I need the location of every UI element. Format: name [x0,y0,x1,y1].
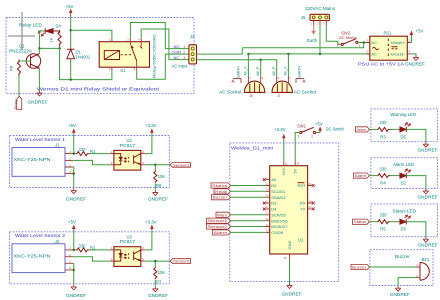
svg-text:PC817: PC817 [120,143,136,148]
svg-text:SW1: SW1 [297,124,307,129]
svg-text:GNDREF: GNDREF [66,197,86,202]
svg-text:+5V: +5V [66,4,74,9]
svg-text:Alarm LED: Alarm LED [393,162,414,167]
svg-text:330: 330 [79,243,87,248]
module outline Buzzer [370,250,433,286]
ground GNDREF (Q1) [28,91,48,105]
op-to-coupler U3 PC817 [110,235,145,267]
node left AC_P [260,59,262,61]
svg-text:SDA/D2: SDA/D2 [271,195,286,200]
power +5V (psu) [410,29,424,37]
wire relay NC to J3 [141,29,189,60]
transistor Q1 PNZ2222A [9,44,41,69]
wire Buzzer to SDA/D2 [231,196,266,198]
ground GNDREF (buzzer) [390,286,410,297]
svg-text:K1: K1 [121,68,127,73]
svg-text:J6: J6 [250,94,254,98]
svg-text:D0: D0 [271,183,277,188]
buzzer BZ1 [416,257,430,280]
svg-text:Relay: Relay [13,100,18,110]
svg-text:AC_N: AC_N [284,66,288,76]
svg-text:2: 2 [183,51,185,55]
svg-text:J2: J2 [55,239,60,244]
resistor R7 10K pulldown [154,261,166,287]
svg-text:Warn: Warn [217,213,227,217]
node sensor output [154,164,156,166]
power +3.3V (sensor 1) [145,123,157,137]
wire left socket AC_P drop [260,60,262,76]
svg-text:XKC-Y25-NPN: XKC-Y25-NPN [14,157,51,162]
module outline WeMos_D1_mini [230,143,339,282]
crosshair mark [8,12,35,50]
svg-text:Sensor2: Sensor2 [173,260,190,264]
global label Alarm (mcu side) [213,230,231,235]
svg-text:XKC-Y25-NPN: XKC-Y25-NPN [14,254,51,259]
mcu right/top/bottom pin leads [284,162,312,261]
wire mains N down [319,26,321,54]
svg-text:Water Level Sensor 1: Water Level Sensor 1 [15,137,65,142]
relay pin leads [112,38,141,70]
svg-text:D2: D2 [401,181,407,186]
svg-text:GND: GND [287,241,292,250]
wire resistor node down to coil return [60,48,112,79]
wire Warn to resistor [370,128,378,130]
wire collector node horizontal [39,46,59,48]
SECTION: sensors [10,123,191,298]
ground GNDREF (R7) [148,287,168,298]
svg-text:R8: R8 [9,65,14,71]
ground GNDREF (sensor 1) [66,189,86,202]
wire SW2 to PSU AC1 [358,42,366,44]
svg-text:AC: AC [371,40,377,45]
wire COM row to rail A [197,48,243,54]
ground GNDREF (Alarm LED) [418,189,438,199]
svg-text:SCL/D1: SCL/D1 [271,189,286,194]
svg-text:Vout-: Vout- [390,51,406,56]
svg-text:2: 2 [337,44,339,48]
J3 pin labels [172,44,186,60]
socket J7 right AC socket [272,66,317,98]
mcu U1 WeMos D1 mini body [270,166,308,254]
wire LED to ground [406,222,426,238]
svg-text:TX: TX [300,207,305,212]
wire resistor to LED [390,128,400,130]
svg-text:330: 330 [380,212,388,217]
wire SW1 to +5V [316,132,321,134]
svg-text:RX: RX [300,201,306,206]
svg-text:A0: A0 [271,177,277,182]
LED D4 relay indicator [38,24,61,37]
relay pin numbers [109,38,140,71]
svg-text:Water Level Sensor 2: Water Level Sensor 2 [15,233,65,238]
relay K1 body [99,34,156,78]
global label Buzzer (buzzer box) [351,264,370,269]
svg-text:PS1: PS1 [384,31,393,36]
node SW2 output [363,41,365,43]
power +3.3V (mcu) [274,127,286,141]
resistor R5 330 [378,212,391,231]
svg-text:Buzzer: Buzzer [352,266,367,270]
svg-text:SCK/D5: SCK/D5 [271,212,286,217]
svg-text:17: 17 [309,205,313,209]
wire right socket AC_N drop [287,54,289,76]
resistor R9 1K (led series, vertical) [49,30,62,46]
node pin1/+5V [73,152,75,154]
svg-text:AC Input: AC Input [172,64,189,69]
ground GNDREF (mcu) [282,284,302,297]
svg-text:U1: U1 [298,238,304,243]
global label Relay (vertical) [13,97,22,110]
svg-text:2: 2 [311,134,313,138]
wire +3.3V to 3V3 pin [283,141,285,162]
svg-text:BZ1: BZ1 [422,257,430,262]
wire LED to ground [406,176,426,189]
wire sensor pin2 to opto pin2 [73,160,110,164]
node pin1/+5V [73,249,75,251]
wire Sensor1 to MISO/D6 [231,220,266,222]
svg-text:Buzzer: Buzzer [213,196,228,200]
power +5V (mcu) [315,121,323,132]
ground GNDREF (Warning LED) [418,142,438,152]
svg-text:Relay 5VDC/250VAC: Relay 5VDC/250VAC [152,34,157,78]
node rail B left [247,53,249,55]
svg-text:10K: 10K [158,174,166,179]
svg-text:+3.3V: +3.3V [145,219,157,224]
wire +5V down to pin1 [73,230,77,250]
svg-text:J1: J1 [55,143,60,148]
svg-text:GNDREF: GNDREF [148,197,168,202]
svg-text:+5V: +5V [68,123,76,128]
wire mains L to SW2 [326,26,341,45]
svg-text:330: 330 [79,147,87,152]
svg-text:GNDREF: GNDREF [418,243,438,248]
node sensor output [154,260,156,262]
svg-text:1N4001: 1N4001 [76,55,91,60]
wire opto pin3 to tag and R [145,164,170,166]
svg-text:D3: D3 [401,227,407,232]
LED D5 [400,123,411,140]
wire GND pin to ground [289,260,291,283]
svg-text:MOSI/D7: MOSI/D7 [271,224,288,229]
svg-text:J7: J7 [277,94,281,98]
node pin4 gnd [73,269,75,271]
svg-text:CS/D8: CS/D8 [271,230,284,235]
svg-text:Status: Status [212,184,227,188]
wire Alarm to CS/D8 [231,231,266,233]
svg-text:WeMos_D1_mini: WeMos_D1_mini [231,146,273,151]
svg-text:Vout+: Vout+ [390,40,406,45]
psu PS1 [358,31,411,67]
wire SW1 to 5V pin [295,133,300,162]
svg-text:5V: 5V [292,168,297,173]
svg-text:AC: AC [371,51,377,56]
module outline Alarm LED [371,158,438,189]
svg-text:J5: J5 [301,15,306,20]
svg-text:330: 330 [380,120,388,125]
svg-text:Relay LED: Relay LED [19,23,43,28]
wire Warn to SCK/D5 [231,214,266,216]
power +5V (sensor 2) [68,219,76,230]
global label Sensor2 (mcu side) [207,224,231,229]
svg-text:GNDREF: GNDREF [66,293,86,298]
svg-text:AC_P: AC_P [272,66,276,76]
SECTION: mains and psu [197,6,426,98]
svg-text:Buzzer: Buzzer [395,254,411,259]
svg-text:Status: Status [354,220,367,224]
wire relay COM to J3 [137,54,189,79]
svg-text:R7: R7 [156,279,162,284]
svg-text:21: 21 [309,182,313,186]
svg-text:14: 14 [296,162,300,166]
resistor R1 330 [76,147,96,156]
mcu left pin leads [266,180,270,233]
wire sensor pin3/pin4 to ground [73,263,74,285]
svg-text:COM: COM [172,50,181,55]
svg-text:PSU AC to +5V 1A: PSU AC to +5V 1A [358,62,404,67]
global label Relay (mcu side) [214,189,231,194]
svg-text:D4: D4 [271,207,277,212]
wire base [19,60,31,62]
wire BZ1 pin2 to ground [398,278,415,287]
connector J3 AC Input [172,34,197,69]
global label Warn (mcu side) [216,212,231,217]
SECTION: wemos [207,121,345,296]
module outline Wemos D1 mini Relay Shield [6,18,194,94]
svg-text:DC Switch: DC Switch [326,127,345,132]
svg-text:EARTH: EARTH [297,66,301,78]
wire LED anode to resistor top [53,31,59,33]
node diode anode [70,78,72,80]
svg-text:AC Socket: AC Socket [294,90,317,95]
node collector right [58,47,60,49]
node pin4 gnd [73,172,75,174]
ground GNDREF (psu) [405,56,425,67]
svg-text:NC: NC [174,55,180,60]
module outline Status LED [371,204,438,237]
svg-text:+3.3V: +3.3V [274,127,286,132]
global label Buzzer (mcu side) [212,195,231,200]
node collector left [38,47,40,49]
svg-text:GNDREF: GNDREF [148,293,168,298]
svg-text:Sensor1: Sensor1 [173,163,190,167]
svg-text:Sensor1: Sensor1 [208,219,228,223]
wire resistor to LED [390,175,400,177]
wire Status to D0 [231,185,266,187]
global label Warn (led) [356,127,370,132]
svg-text:10: 10 [266,229,270,233]
wire resistor to opto pin1 [89,153,110,155]
resistor R2 330 [76,243,96,252]
svg-text:Sensor2: Sensor2 [208,225,228,229]
wire NC row extension [197,60,277,76]
svg-text:MISO/D6: MISO/D6 [271,218,288,223]
node mains N joins rail B [319,53,321,55]
svg-text:Earth: Earth [307,38,318,43]
svg-text:10K: 10K [158,270,166,275]
svg-text:D5: D5 [401,134,407,139]
LED D3 [400,215,411,232]
svg-text:GNDREF: GNDREF [405,62,425,67]
connector J1 XKC-Y25-NPN [12,143,73,177]
power Earth symbol [307,26,318,44]
wire resistor to LED [390,221,400,223]
svg-text:Warning LED: Warning LED [390,112,416,117]
wire rail B (neutral) [248,53,369,55]
svg-text:EARTH: EARTH [236,66,240,78]
svg-text:1: 1 [298,134,300,138]
wire emitter to ground [38,68,40,91]
connector J5 220VAC mains [301,6,336,26]
svg-text:1: 1 [359,44,361,48]
wire opto pin3 to tag and R [145,260,170,262]
svg-text:16: 16 [284,256,288,260]
wire collector [38,48,40,53]
power +5V (sensor 1) [68,123,76,134]
svg-text:Relay: Relay [215,190,227,194]
wire Status to resistor [370,221,378,223]
wire sensor pin3/pin4 to ground [73,167,74,189]
wire resistor to opto pin1 [89,249,110,251]
connector J2 XKC-Y25-NPN [12,239,73,273]
svg-text:+3.3V: +3.3V [145,123,157,128]
module outline Water Level Sensor 2 [10,232,170,284]
ground GNDREF (R6) [148,191,168,202]
wire Buzzer tag to BZ1 pin1 [370,266,416,268]
node +5V/coil junction [70,29,72,31]
svg-text:GNDREF: GNDREF [28,100,48,105]
svg-text:AC_N: AC_N [244,66,248,76]
diode D1 1N4001 flyback [67,49,91,79]
module outline Warning LED [371,109,438,142]
svg-text:R4: R4 [380,181,386,186]
wire +5V to relay coil pin 1 [71,30,112,38]
svg-text:R6: R6 [156,183,162,188]
svg-text:Alarm: Alarm [355,174,367,178]
global label Status (led) [353,219,370,224]
resistor R8 base (vertical) [9,60,21,77]
svg-text:220VAC Mains: 220VAC Mains [305,6,336,11]
ground GNDREF (Status LED) [418,237,438,247]
svg-text:AC Socket: AC Socket [219,90,242,95]
wire +5V rail down [70,16,72,49]
svg-text:Status LED: Status LED [393,208,417,213]
svg-text:D3: D3 [271,201,277,206]
SECTION: relay module [6,4,197,110]
svg-text:PNZ2222A: PNZ2222A [9,49,32,54]
svg-text:R3: R3 [380,134,386,139]
wire +5V down to pin1 [73,134,77,154]
svg-text:+5V: +5V [416,29,424,34]
power +5V (relay) [66,4,74,16]
resistor R4 330 [378,166,391,185]
socket J6 left AC socket [219,66,265,98]
svg-text:D4: D4 [56,24,62,29]
switch SW1 DC Switch [297,124,344,139]
wire opto pin4 to +3.3V [145,233,152,250]
wire base resistor to Relay tag [18,76,20,97]
ground GNDREF (sensor 2) [66,285,86,298]
svg-text:1K: 1K [49,37,54,42]
resistor R6 10K pulldown [154,165,166,191]
svg-text:Alarm: Alarm [214,231,228,235]
wire Vout- to ground [411,54,416,56]
global label Status (mcu side) [211,183,231,188]
switch SW2 AC Mains [337,31,361,49]
wire left socket AC_N drop [247,54,249,76]
op-to-coupler U2 PC817 [110,138,145,170]
svg-text:18: 18 [309,199,313,203]
wire rail A (line) [242,43,363,48]
wire LED to ground [406,129,426,142]
svg-text:GNDREF: GNDREF [390,292,410,297]
svg-text:3: 3 [183,56,185,60]
wire relay NO to J3 [130,23,188,49]
svg-text:1: 1 [183,45,185,49]
svg-text:PC817: PC817 [120,239,136,244]
LED D2 [400,169,411,186]
wire Vout+ to +5V [410,37,412,43]
wire Alarm to resistor [370,175,378,177]
svg-text:Wemos D1 mini Relay Shield or: Wemos D1 mini Relay Shield or Equivalent [37,87,160,92]
svg-text:R5: R5 [380,227,386,232]
module outline Water Level Sensor 1 [10,136,170,188]
svg-text:GNDREF: GNDREF [418,194,438,199]
global label Sensor2 [170,259,191,264]
resistor R3 330 [378,120,391,139]
wire sensor pin2 to opto pin2 [73,257,110,261]
wire Relay to SCL/D1 [231,190,266,192]
wire Sensor2 to MOSI/D7 [231,226,266,228]
svg-text:Warn: Warn [357,128,367,132]
svg-text:AC_P: AC_P [256,66,260,76]
svg-text:GNDREF: GNDREF [282,291,302,296]
SECTION: right column [351,109,438,297]
svg-text:RST: RST [298,183,307,188]
svg-text:+5V: +5V [68,219,76,224]
svg-text:3V3: 3V3 [281,168,286,176]
global label Sensor1 [170,162,191,167]
svg-text:GNDREF: GNDREF [418,148,438,153]
wire LED cathode to collector node [39,31,45,48]
svg-text:330: 330 [380,166,388,171]
svg-text:11: 11 [285,162,288,166]
svg-text:J3: J3 [190,34,195,39]
svg-text:NO: NO [174,44,180,49]
node right AC_N [287,53,289,55]
global label Sensor1 (mcu side) [207,218,231,223]
svg-text:+5V: +5V [315,121,323,126]
wire opto pin4 to +3.3V [145,137,152,154]
global label Alarm (led) [354,173,370,178]
no-connect marks A0 D3 D4 RST RX TX [263,178,315,210]
power +3.3V (sensor 2) [145,219,157,233]
